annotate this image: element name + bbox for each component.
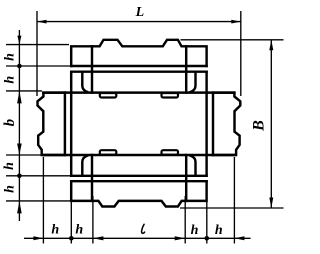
svg-text:L: L (135, 5, 145, 20)
svg-text:h: h (191, 223, 199, 238)
svg-text:h: h (3, 185, 18, 193)
svg-text:h: h (51, 222, 59, 237)
svg-text:b: b (2, 118, 18, 126)
svg-text:B: B (251, 120, 268, 132)
svg-text:h: h (215, 223, 223, 238)
svg-text:h: h (2, 162, 17, 170)
svg-text:h: h (3, 53, 18, 61)
svg-text:h: h (3, 76, 18, 84)
svg-text:h: h (75, 222, 83, 237)
